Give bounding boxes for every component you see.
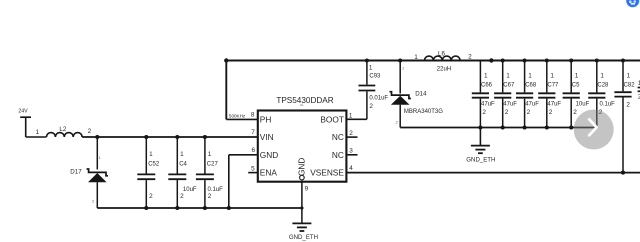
svg-text:1: 1 xyxy=(149,151,153,158)
svg-text:GND: GND xyxy=(297,158,307,176)
svg-text:C68: C68 xyxy=(525,83,537,89)
svg-text:C28: C28 xyxy=(597,83,609,89)
svg-text:2: 2 xyxy=(180,193,184,200)
svg-text:ENA: ENA xyxy=(260,168,278,178)
svg-text:2: 2 xyxy=(369,103,373,110)
svg-text:2: 2 xyxy=(468,53,472,60)
svg-text:7: 7 xyxy=(251,129,255,136)
svg-text:GND_ETH: GND_ETH xyxy=(289,234,318,241)
svg-text:1: 1 xyxy=(506,72,510,79)
svg-text:1: 1 xyxy=(575,72,579,79)
svg-text:C27: C27 xyxy=(207,162,219,168)
svg-text:GND: GND xyxy=(260,150,278,160)
svg-text:1: 1 xyxy=(550,72,554,79)
svg-text:VSENSE: VSENSE xyxy=(310,168,344,178)
svg-text:0.1uF: 0.1uF xyxy=(208,187,224,193)
svg-text:2: 2 xyxy=(505,109,509,116)
svg-text:1: 1 xyxy=(627,72,631,79)
svg-text:1: 1 xyxy=(36,129,40,136)
svg-text:C77: C77 xyxy=(547,83,559,89)
svg-text:D17: D17 xyxy=(70,168,82,175)
svg-text:4: 4 xyxy=(349,165,353,172)
svg-text:TPS5430DDAR: TPS5430DDAR xyxy=(276,96,333,105)
svg-text:2: 2 xyxy=(626,102,630,109)
svg-text:GND_ETH: GND_ETH xyxy=(466,157,495,164)
svg-text:1: 1 xyxy=(349,112,353,119)
svg-text:24V: 24V xyxy=(18,108,28,114)
svg-text:47uF: 47uF xyxy=(481,102,495,108)
svg-text:5: 5 xyxy=(251,165,255,172)
svg-text:22uH: 22uH xyxy=(437,67,451,73)
svg-text:2: 2 xyxy=(482,109,486,116)
svg-text:L6: L6 xyxy=(438,51,445,58)
svg-text:C82: C82 xyxy=(624,83,636,89)
svg-text:1: 1 xyxy=(484,72,488,79)
svg-text:1: 1 xyxy=(369,65,373,72)
svg-text:C52: C52 xyxy=(148,162,160,168)
svg-text:10uF: 10uF xyxy=(183,187,197,193)
svg-text:1: 1 xyxy=(99,156,101,160)
svg-text:2: 2 xyxy=(88,128,92,135)
svg-text:1: 1 xyxy=(600,72,604,79)
svg-text:8: 8 xyxy=(251,112,255,119)
svg-text:1: 1 xyxy=(180,151,184,158)
svg-text:NC: NC xyxy=(332,150,344,160)
svg-text:47uF: 47uF xyxy=(503,102,517,108)
svg-text:VIN: VIN xyxy=(260,132,274,142)
svg-text:C67: C67 xyxy=(503,83,515,89)
svg-text:3: 3 xyxy=(349,147,353,154)
svg-text:1: 1 xyxy=(414,54,418,61)
svg-text:1: 1 xyxy=(208,151,212,158)
svg-text:0.01uF: 0.01uF xyxy=(369,95,388,101)
svg-text:2: 2 xyxy=(92,199,94,203)
svg-text:C93: C93 xyxy=(369,73,381,79)
svg-text:2: 2 xyxy=(208,193,212,200)
svg-text:10uF: 10uF xyxy=(576,102,590,108)
svg-text:u1: u1 xyxy=(300,103,304,107)
svg-text:PH: PH xyxy=(260,115,272,125)
svg-text:C5: C5 xyxy=(572,83,580,89)
svg-text:1: 1 xyxy=(528,72,532,79)
svg-text:BOOT: BOOT xyxy=(320,115,344,125)
svg-text:2: 2 xyxy=(573,109,577,116)
svg-text:L2: L2 xyxy=(59,126,66,133)
svg-text:2: 2 xyxy=(527,109,531,116)
svg-text:500KHz: 500KHz xyxy=(229,114,246,119)
svg-text:C66: C66 xyxy=(481,83,493,89)
svg-text:1: 1 xyxy=(402,67,404,71)
svg-text:6: 6 xyxy=(252,147,256,154)
svg-text:C4: C4 xyxy=(179,162,187,168)
svg-text:2: 2 xyxy=(549,109,553,116)
svg-text:9: 9 xyxy=(305,185,309,192)
svg-text:NC: NC xyxy=(332,132,344,142)
svg-text:MBRA340T3G: MBRA340T3G xyxy=(404,109,443,115)
svg-text:2: 2 xyxy=(349,130,353,137)
svg-text:2: 2 xyxy=(149,193,153,200)
svg-text:D14: D14 xyxy=(415,90,427,97)
svg-text:47uF: 47uF xyxy=(547,102,561,108)
svg-text:2: 2 xyxy=(396,120,398,124)
svg-text:47uF: 47uF xyxy=(525,102,539,108)
svg-text:0.1uF: 0.1uF xyxy=(600,102,616,108)
